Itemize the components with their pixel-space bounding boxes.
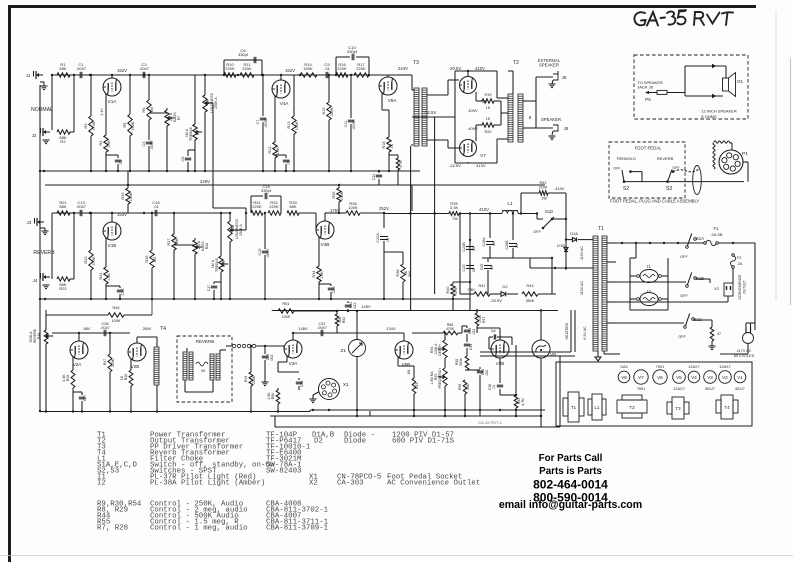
- svg-text:.022: .022: [353, 303, 357, 310]
- capacitor C22B 20: [469, 240, 471, 243]
- capacitor C32 .022: [347, 301, 349, 303]
- ground bus channel 1: [40, 170, 420, 172]
- svg-text:REVERB: REVERB: [33, 328, 37, 343]
- svg-text:R2: R2: [60, 139, 66, 144]
- resistor R36 100K: [346, 211, 360, 215]
- T1 taps: [607, 242, 616, 244]
- svg-text:O1: O1: [737, 79, 743, 84]
- junction: [347, 310, 349, 312]
- plug P1: [719, 150, 743, 174]
- junction: [111, 212, 113, 214]
- svg-text:470K: 470K: [92, 256, 96, 265]
- junction: [245, 212, 247, 214]
- svg-text:SPEAKER: SPEAKER: [541, 117, 561, 122]
- ground bus channel 2: [40, 298, 470, 300]
- svg-text:V7: V7: [480, 153, 486, 158]
- junction: [635, 242, 637, 244]
- svg-text:CBA-811-3709-1: CBA-811-3709-1: [266, 525, 329, 533]
- wires foot pedal: [624, 181, 744, 183]
- junction: [388, 170, 390, 172]
- resistor R58 390K: [465, 356, 469, 370]
- svg-text:T1: T1: [598, 226, 604, 232]
- capacitor C13 .0047: [79, 210, 81, 216]
- resistor R27 68K: [173, 213, 175, 234]
- svg-text:6EU7: 6EU7: [705, 387, 715, 391]
- lamp Va: [532, 340, 550, 358]
- svg-text:C7: C7: [256, 120, 260, 125]
- wire: [73, 213, 75, 279]
- bus 333 line: [293, 332, 404, 334]
- svg-text:.01: .01: [153, 204, 159, 209]
- svg-text:.01: .01: [324, 66, 330, 71]
- svg-text:.01: .01: [492, 385, 496, 390]
- junction: [433, 212, 435, 214]
- svg-text:TREBLE: TREBLE: [189, 126, 193, 141]
- junction: [261, 74, 263, 76]
- svg-text:T4: T4: [724, 405, 730, 410]
- svg-text:X2: X2: [309, 480, 318, 488]
- wire: [518, 213, 537, 215]
- junction: [262, 170, 264, 172]
- svg-text:X2: X2: [714, 286, 720, 291]
- svg-text:Control - 1 meg, audio: Control - 1 meg, audio: [150, 525, 248, 533]
- svg-text:V1: V1: [737, 375, 743, 380]
- wire 228 to R35: [338, 184, 340, 186]
- svg-text:V5: V5: [676, 375, 682, 380]
- wire: [494, 100, 501, 102]
- switch S1B: [686, 285, 689, 288]
- svg-text:1K: 1K: [390, 143, 394, 148]
- svg-text:R29: R29: [222, 261, 226, 268]
- svg-text:117V AC: 117V AC: [737, 349, 752, 353]
- resistor R19 1K: [475, 92, 477, 101]
- svg-text:330pf: 330pf: [261, 188, 272, 193]
- svg-text:.022: .022: [485, 370, 489, 377]
- wire: [482, 257, 552, 259]
- junction: [223, 74, 225, 76]
- svg-text:R51: R51: [283, 302, 290, 306]
- depth pot R54: [444, 333, 446, 340]
- resistor R16 220K: [336, 73, 348, 77]
- junction: [499, 409, 501, 411]
- junction: [39, 298, 41, 300]
- svg-text:R53: R53: [415, 383, 419, 390]
- junction: [89, 212, 91, 214]
- svg-text:AC Convenience Outlet: AC Convenience Outlet: [387, 480, 480, 488]
- svg-text:R22: R22: [59, 286, 67, 291]
- wire T3 secondary to V6 grid: [427, 94, 448, 96]
- triode V4B: [316, 221, 334, 239]
- svg-text:S3: S3: [666, 186, 672, 192]
- diode D1A: [565, 219, 567, 270]
- svg-text:GA-35 RVT-1: GA-35 RVT-1: [478, 420, 503, 425]
- svg-text:68K: 68K: [59, 204, 66, 209]
- junction: [45, 410, 47, 412]
- junction: [250, 345, 252, 347]
- loudness pot R30 250K: [229, 213, 231, 221]
- wire plate V1A: [111, 75, 113, 78]
- ground: [549, 135, 556, 137]
- svg-text:220K: 220K: [269, 204, 279, 209]
- svg-text:C26B: C26B: [505, 240, 509, 250]
- speaker O1: [725, 66, 727, 78]
- plug P6: [645, 91, 649, 94]
- capacitor C9 .01: [325, 72, 327, 78]
- svg-text:F2: F2: [737, 255, 742, 260]
- svg-text:415V: 415V: [555, 186, 565, 191]
- speaker assembly dashed box: [634, 55, 748, 119]
- junction: [356, 310, 358, 312]
- svg-text:95: 95: [201, 369, 205, 373]
- resistor R48 1K: [130, 359, 132, 370]
- wire: [382, 109, 389, 111]
- svg-text:NORMAL: NORMAL: [31, 107, 53, 113]
- svg-text:R7: R7: [177, 116, 181, 121]
- capacitor C11 .0047: [350, 75, 352, 118]
- junction: [338, 212, 340, 214]
- svg-text:110V AC: 110V AC: [580, 246, 584, 260]
- wire: [188, 149, 195, 151]
- resistor R41 7.5K: [460, 293, 474, 295]
- resistor R21 68K: [57, 211, 70, 215]
- wire: [389, 154, 398, 156]
- chart tube V4: [688, 371, 700, 383]
- wire: [718, 242, 755, 244]
- wire: [500, 394, 516, 396]
- junction: [148, 170, 150, 172]
- wire C30: [212, 184, 214, 186]
- capacitor C7 .0047: [262, 75, 264, 116]
- svg-text:1M: 1M: [153, 257, 157, 262]
- wire: [40, 227, 45, 229]
- capacitor C1 .0047: [79, 72, 81, 78]
- capacitor C10 330pf loop: [335, 57, 337, 75]
- svg-text:20: 20: [472, 268, 476, 272]
- svg-text:D1A: D1A: [570, 231, 578, 236]
- junction: [677, 242, 679, 244]
- svg-text:C23: C23: [462, 265, 466, 272]
- junction: [143, 74, 145, 76]
- junction: [464, 409, 466, 411]
- capacitor C23 20: [466, 265, 474, 267]
- svg-text:R57: R57: [482, 317, 486, 323]
- svg-text:R58: R58: [455, 359, 459, 365]
- svg-text:.0047: .0047: [150, 140, 154, 150]
- svg-text:TREBLE: TREBLE: [215, 257, 219, 272]
- svg-text:.001: .001: [270, 355, 274, 362]
- junction: [129, 170, 131, 172]
- junction: [515, 394, 517, 396]
- svg-text:68K: 68K: [59, 66, 66, 71]
- wire: [230, 229, 246, 231]
- switch S1C: [684, 326, 687, 329]
- svg-text:J1: J1: [26, 73, 31, 78]
- junction: [173, 212, 175, 214]
- junction: [220, 212, 222, 214]
- svg-text:40: 40: [490, 266, 494, 270]
- wire T3 secondary to V7 grid: [427, 139, 448, 141]
- junction: [229, 298, 231, 300]
- ground: [42, 230, 49, 232]
- reverb transformer T4 primary: [154, 347, 159, 385]
- ground: [43, 139, 50, 141]
- junction: [90, 74, 92, 76]
- junction: [459, 212, 461, 214]
- junction: [469, 212, 471, 214]
- svg-text:R59: R59: [458, 384, 462, 390]
- svg-text:R34: R34: [312, 271, 316, 278]
- svg-text:R54: R54: [430, 347, 434, 353]
- svg-text:7.5K: 7.5K: [467, 288, 475, 292]
- svg-text:R42: R42: [540, 181, 547, 185]
- capacitor C19 .0047: [264, 213, 266, 249]
- svg-text:email info@guitar-parts.com: email info@guitar-parts.com: [499, 499, 642, 511]
- svg-text:220K: 220K: [225, 66, 235, 71]
- svg-text:OFF: OFF: [680, 294, 688, 298]
- capacitor C35 .022: [479, 367, 481, 369]
- resistor R14 150K: [300, 73, 317, 77]
- triode V2B: [128, 343, 146, 361]
- svg-text:100K: 100K: [340, 191, 344, 200]
- svg-text:20: 20: [472, 247, 476, 251]
- junction: [72, 410, 74, 412]
- svg-text:DEPTH: DEPTH: [438, 344, 442, 356]
- junction: [264, 345, 266, 347]
- resistor R6 1M: [148, 75, 150, 100]
- junction: [663, 242, 665, 244]
- svg-text:T3: T3: [413, 60, 419, 66]
- svg-text:1.5K: 1.5K: [320, 271, 324, 279]
- svg-text:C20: C20: [332, 287, 336, 294]
- svg-text:1M: 1M: [150, 107, 154, 112]
- svg-text:R41: R41: [479, 284, 486, 288]
- junction: [105, 170, 107, 172]
- wire: [149, 112, 167, 114]
- svg-text:8 OHMS: 8 OHMS: [701, 114, 717, 119]
- junction: [512, 212, 514, 214]
- wire T2 secondary: [523, 100, 536, 102]
- loudness pot R9 250K: [204, 75, 206, 95]
- svg-text:V4B: V4B: [321, 242, 330, 247]
- svg-text:.0047: .0047: [139, 66, 150, 71]
- svg-text:P6: P6: [645, 97, 651, 102]
- svg-text:410V: 410V: [476, 163, 486, 168]
- svg-text:I1: I1: [647, 264, 651, 269]
- junction: [39, 170, 41, 172]
- svg-text:R48: R48: [124, 374, 128, 381]
- wire grid V2B: [110, 333, 128, 348]
- svg-text:V4A: V4A: [280, 101, 290, 106]
- chart transformer T4: [721, 395, 733, 419]
- junction: [109, 332, 111, 334]
- wire: [73, 391, 82, 393]
- svg-text:R47: R47: [103, 359, 107, 366]
- svg-text:OFF: OFF: [533, 230, 541, 234]
- junction: [469, 281, 471, 283]
- svg-text:C22A: C22A: [376, 233, 380, 243]
- vertical long leads: [454, 71, 456, 117]
- svg-text:OFF: OFF: [680, 255, 688, 259]
- svg-text:220K: 220K: [252, 375, 256, 384]
- resistor R33 68K: [287, 211, 299, 215]
- junction: [111, 74, 113, 76]
- wire mixer tap channel1: [212, 103, 214, 208]
- svg-text:470K: 470K: [446, 327, 455, 331]
- wire top tap: [616, 242, 686, 244]
- capacitor 7pf: [489, 336, 493, 338]
- svg-text:47: 47: [717, 332, 721, 336]
- wire: [603, 351, 605, 354]
- resistor 4.7K: [397, 155, 399, 158]
- junction: [280, 74, 282, 76]
- svg-text:330pf: 330pf: [238, 52, 249, 57]
- junction: [621, 242, 623, 244]
- junction: [464, 415, 466, 417]
- svg-text:R52: R52: [342, 317, 346, 324]
- junction: [452, 298, 454, 300]
- junction: [336, 310, 338, 312]
- svg-text:409V: 409V: [468, 126, 478, 131]
- ground: [264, 378, 266, 382]
- diode D2: [501, 292, 506, 297]
- input jack J2: [43, 130, 46, 134]
- svg-text:148V: 148V: [298, 326, 308, 331]
- switch S1D: [542, 227, 545, 230]
- junction: [444, 332, 446, 334]
- junction: [565, 218, 567, 220]
- reverb unit dashed box: [177, 336, 232, 402]
- svg-text:.0047: .0047: [100, 326, 110, 330]
- resistor R1 68K: [57, 73, 70, 77]
- svg-text:JACK J6: JACK J6: [637, 85, 653, 90]
- svg-text:V1B: V1B: [108, 243, 117, 248]
- svg-text:12AX7: 12AX7: [719, 365, 730, 369]
- svg-text:V2: V2: [722, 375, 728, 380]
- wire: [747, 344, 749, 354]
- svg-text:1.1V: 1.1V: [100, 108, 104, 116]
- junction: [89, 74, 91, 76]
- svg-text:1K: 1K: [120, 375, 124, 380]
- wire reverb return: [226, 345, 232, 347]
- resistor small: [710, 327, 714, 341]
- svg-text:R38: R38: [396, 270, 400, 277]
- capacitor C6 330pf loop: [223, 60, 225, 75]
- svg-text:C19: C19: [258, 249, 262, 256]
- junction: [129, 74, 131, 76]
- svg-text:100K: 100K: [295, 121, 299, 130]
- junction: [111, 212, 113, 214]
- wire: [70, 278, 74, 280]
- svg-text:R18: R18: [382, 142, 386, 149]
- heater wires: [570, 310, 572, 352]
- svg-text:T4: T4: [160, 326, 166, 332]
- svg-text:OFF: OFF: [678, 335, 686, 339]
- bus 427: [275, 426, 541, 428]
- svg-text:7pf: 7pf: [491, 329, 496, 333]
- capacitor C31 .0047: [320, 330, 322, 336]
- resistor R59 39K: [464, 370, 466, 380]
- capacitor C12: [378, 171, 380, 173]
- svg-text:228V: 228V: [200, 179, 210, 184]
- pentode V7: [460, 140, 477, 157]
- input jack J1: [36, 73, 39, 77]
- svg-text:.0047: .0047: [264, 118, 268, 128]
- svg-text:.0047: .0047: [317, 326, 327, 330]
- junction: [515, 415, 517, 417]
- cathode resistor R12 1.5K: [274, 96, 276, 142]
- treble pot R29 1M: [220, 213, 222, 256]
- capacitor C28 .0047: [103, 330, 105, 336]
- svg-text:T3: T3: [675, 406, 681, 411]
- reverb spring: [196, 362, 208, 366]
- svg-text:C2: C2: [119, 160, 123, 165]
- wire: [51, 75, 53, 130]
- resistor R26 1M: [151, 213, 153, 250]
- resistor R56 470K: [443, 331, 458, 335]
- ground arrow T1: [597, 351, 599, 353]
- svg-text:-33.5V: -33.5V: [490, 298, 502, 303]
- junction: [444, 409, 446, 411]
- junction: [90, 298, 92, 300]
- bus 228V: [45, 184, 545, 186]
- junction: [383, 298, 385, 300]
- wire: [455, 70, 481, 72]
- capacitor C29 .001: [264, 346, 266, 354]
- svg-text:R49: R49: [244, 376, 248, 383]
- svg-text:C34: C34: [469, 344, 473, 350]
- svg-text:For Parts Call: For Parts Call: [539, 453, 603, 464]
- svg-text:TREMOLO: TREMOLO: [616, 156, 636, 161]
- junction: [264, 298, 266, 300]
- junction: [540, 309, 542, 311]
- junction: [649, 242, 651, 244]
- svg-text:47K: 47K: [454, 287, 458, 294]
- svg-text:3.3K: 3.3K: [450, 205, 459, 210]
- junction: [285, 170, 287, 172]
- junction: [250, 410, 252, 412]
- svg-text:OUTLET: OUTLET: [743, 280, 747, 293]
- svg-text:250K A: 250K A: [214, 97, 218, 109]
- capacitor C33 .022: [466, 326, 468, 328]
- svg-text:220K: 220K: [337, 66, 347, 71]
- svg-text:88V: 88V: [84, 327, 91, 331]
- scan line bottom: [0, 555, 793, 557]
- ground: [711, 341, 713, 346]
- svg-text:R13: R13: [287, 122, 291, 129]
- neon tremolo Z1: [349, 340, 366, 357]
- chart tube V5: [673, 371, 686, 384]
- capacitor C26B 20: [512, 214, 514, 241]
- svg-text:S2: S2: [623, 186, 629, 192]
- svg-text:220K: 220K: [330, 107, 334, 116]
- svg-text:1.5K: 1.5K: [276, 147, 280, 155]
- svg-text:C27: C27: [83, 395, 87, 402]
- svg-text:2A: 2A: [738, 261, 743, 266]
- wire: [40, 81, 44, 83]
- pilot lamp I2: [640, 293, 658, 306]
- svg-text:L1: L1: [507, 201, 513, 206]
- junction: [368, 74, 370, 76]
- svg-text:410V: 410V: [479, 207, 489, 212]
- wire: [299, 212, 316, 214]
- junction: [204, 74, 206, 76]
- svg-text:6.3V AC: 6.3V AC: [583, 326, 587, 340]
- resistor R20 1K: [475, 125, 477, 141]
- svg-text:REVERB: REVERB: [657, 156, 674, 161]
- wire: [51, 75, 53, 132]
- svg-text:1W: 1W: [541, 197, 547, 201]
- svg-text:C14: C14: [121, 289, 125, 296]
